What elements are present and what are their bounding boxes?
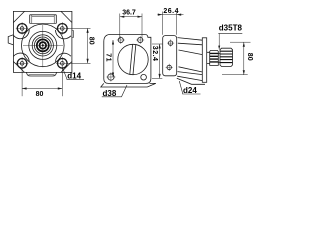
dim 80 right-of-view arrows bbox=[87, 28, 89, 63]
big bore circle bbox=[118, 44, 148, 74]
foot bbox=[101, 83, 156, 87]
dim 80 bottom arrows bbox=[22, 87, 62, 89]
lug arc TR bbox=[56, 30, 71, 39]
housing line 2 bbox=[178, 43, 203, 45]
spline ring inner thick bbox=[40, 42, 47, 49]
housing line 3 bbox=[179, 50, 203, 55]
leader d35T8 arrow bbox=[218, 46, 220, 50]
left edge lug bbox=[8, 35, 13, 45]
dim 71 line bbox=[112, 40, 114, 77]
boss circle 3 bbox=[34, 37, 51, 54]
shaft link lines bbox=[218, 54, 220, 63]
hub block bbox=[210, 50, 219, 65]
top port tab bottom line bbox=[30, 22, 57, 24]
svg-text:26.4: 26.4 bbox=[163, 8, 179, 15]
svg-text:80: 80 bbox=[36, 91, 44, 98]
lug arc TL bbox=[14, 30, 30, 39]
svg-text:d38: d38 bbox=[103, 89, 117, 98]
svg-text:d14: d14 bbox=[67, 72, 81, 81]
dim 80 far right arrows bbox=[243, 42, 245, 74]
top tab inner walls bbox=[32, 15, 54, 24]
svg-text:80: 80 bbox=[87, 37, 94, 45]
dim 80 right-of-view ext lines bbox=[68, 28, 91, 63]
dim 80 bottom line bbox=[22, 88, 62, 90]
housing line 5 bbox=[177, 76, 202, 80]
svg-text:d35T8: d35T8 bbox=[219, 24, 243, 33]
dim 71 arrows bbox=[112, 40, 114, 77]
leader d35T8 underline bbox=[218, 32, 242, 34]
housing bottom edge bbox=[177, 78, 205, 84]
dim 80 right-of-view line bbox=[87, 28, 89, 63]
slot line right bbox=[133, 45, 136, 75]
port plate bbox=[163, 36, 177, 76]
dim 36.7 line bbox=[120, 16, 142, 18]
front flange edge plate bbox=[202, 38, 206, 83]
shaft center dot bbox=[42, 44, 44, 46]
horizontal centerline bbox=[23, 44, 63, 46]
bell circle bbox=[22, 24, 65, 67]
bolt hole TR bbox=[56, 22, 69, 35]
spline ring outer thick bbox=[37, 39, 49, 51]
dim 80 bottom ext lines bbox=[22, 69, 62, 97]
corner chamfer TL bbox=[13, 11, 24, 22]
body outline bbox=[104, 34, 151, 83]
leader d35T8 drop bbox=[218, 34, 220, 50]
bolt hole BR bbox=[56, 57, 69, 70]
plate hole top bbox=[167, 40, 174, 47]
vertical centerline bbox=[42, 25, 44, 67]
right edge notch bbox=[72, 31, 74, 38]
leader d24 bbox=[179, 81, 200, 94]
dim 26.4 arrows bbox=[158, 14, 181, 16]
dim 36.7 arrows bbox=[120, 16, 142, 18]
bottom tab inner line bbox=[29, 73, 55, 75]
bolt hole TL bbox=[16, 22, 29, 35]
dim 36.7 ext lines bbox=[120, 14, 142, 40]
dim 32.4 arrows bbox=[159, 44, 161, 78]
slot line left bbox=[130, 45, 133, 75]
housing line 4 bbox=[179, 67, 203, 72]
dim 80 far right ext lines bbox=[222, 42, 251, 74]
lug arc BR bbox=[56, 53, 71, 62]
bolt hole BL bbox=[16, 57, 29, 70]
bottom tab bbox=[27, 72, 57, 76]
top port tab bbox=[30, 15, 57, 24]
housing line 4b bbox=[178, 72, 203, 75]
dim 26.4 ext lines bbox=[162, 12, 176, 35]
spline block bbox=[220, 48, 233, 66]
svg-text:32.4: 32.4 bbox=[151, 46, 158, 62]
lug arc BL bbox=[14, 53, 30, 62]
housing top line bbox=[178, 38, 203, 41]
shaft neck bbox=[207, 52, 210, 63]
dim 32.4 line bbox=[159, 44, 161, 78]
svg-text:36.7: 36.7 bbox=[122, 9, 136, 16]
corner chamfer BR bbox=[61, 62, 72, 73]
leader d14 bbox=[62, 67, 84, 80]
plate hole bottom bbox=[166, 64, 173, 71]
svg-text:71: 71 bbox=[105, 53, 112, 62]
hole bottom-right bbox=[141, 74, 147, 80]
dim 26.4 line bbox=[158, 14, 184, 16]
corner chamfer BL bbox=[13, 62, 24, 73]
svg-text:d24: d24 bbox=[183, 86, 197, 95]
corner chamfer TR bbox=[61, 11, 72, 22]
boss circle 1 bbox=[29, 31, 57, 59]
dim 80 far right line bbox=[243, 42, 245, 74]
port hole top-left bbox=[117, 36, 125, 44]
flange square outline bbox=[13, 11, 72, 72]
boss circle 2 bbox=[32, 35, 53, 56]
port hole top-right bbox=[136, 36, 144, 44]
dim 32.4 ext lines bbox=[152, 44, 162, 78]
leader d38 bbox=[102, 85, 127, 97]
svg-text:80: 80 bbox=[246, 53, 253, 61]
hole bottom-left bbox=[106, 73, 115, 82]
